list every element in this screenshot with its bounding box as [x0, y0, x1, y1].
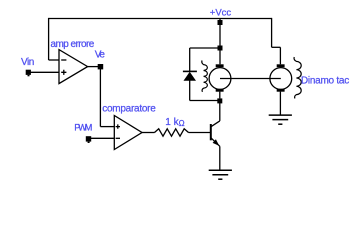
wire sub-rail to diode branch [190, 47, 220, 49]
svg-text:Dinamo tac: Dinamo tac [301, 76, 349, 87]
wire diode D1 top lead [189, 48, 191, 71]
wire diode D1 bottom lead [189, 80, 191, 100]
svg-text:+Vcc: +Vcc [210, 7, 232, 18]
node Ve square [98, 64, 104, 69]
wire Q1 emitter to ground [219, 146, 221, 170]
wire motor shaft to dynamo shaft [220, 78, 281, 80]
node junction square at diode branch [218, 46, 223, 51]
resistor R1 1 kOhm zigzag [155, 129, 189, 136]
motor M armature circle [209, 68, 231, 90]
diode D1 flyback [183, 71, 197, 80]
wire PWM to U2 minus input [91, 137, 115, 139]
svg-text:1 kΩ: 1 kΩ [165, 117, 184, 128]
op-amp U2 comparatore [114, 116, 142, 150]
wire top feedback rail [49, 18, 272, 20]
node junction square at motor bottom / collector [217, 98, 222, 103]
wire stub to U1 minus input [49, 59, 60, 61]
svg-text:comparatore: comparatore [102, 104, 156, 115]
wire node Ve vertical to comparator [99, 69, 101, 127]
dynamo field coil [294, 57, 301, 98]
wire top rail right corner down [271, 18, 273, 47]
svg-text:Vin: Vin [21, 57, 34, 68]
wire resistor R1 to base of Q1 [189, 132, 211, 134]
motor M field coil [202, 60, 208, 91]
ground under dynamo [269, 115, 292, 124]
op-amp U1 amp errore [59, 50, 88, 84]
wire motor bottom terminal to junction [219, 92, 221, 99]
wire U1 output to node Ve [88, 66, 98, 68]
dynamo tachometer armature circle [270, 68, 292, 90]
wire junction to Q1 collector [219, 103, 221, 121]
svg-text:amp errore: amp errore [51, 39, 95, 50]
node junction square on +Vcc rail [218, 20, 223, 25]
terminal Vin square [26, 70, 31, 77]
wire U2 output to resistor R1 [142, 132, 155, 134]
motor M bottom terminal [216, 89, 224, 92]
wire stub to U2 plus input [100, 126, 114, 128]
transistor Q1 emitter arrow [213, 139, 220, 146]
dynamo bottom terminal [277, 89, 285, 92]
svg-text:Ve: Ve [95, 50, 106, 61]
terminal PWM square [86, 136, 91, 143]
wire corner to dynamo feed [272, 46, 281, 48]
dynamo top terminal [277, 64, 285, 67]
wire dynamo feed vertical [279, 47, 281, 64]
wire +Vcc vertical to motor top terminal [219, 19, 221, 65]
ground under Q1 emitter [209, 170, 232, 179]
wire Vin to U1 plus input [31, 71, 60, 73]
wire bottom rail diode to junction [190, 100, 220, 102]
wire dynamo bottom to ground [279, 92, 281, 115]
svg-text:PWM: PWM [74, 122, 91, 132]
motor M top terminal [216, 64, 224, 67]
transistor Q1 NPN [211, 121, 220, 146]
wire feedback vertical to U1 inverting input [48, 18, 50, 60]
